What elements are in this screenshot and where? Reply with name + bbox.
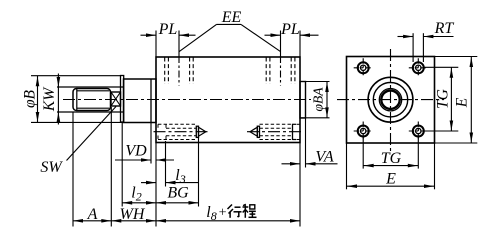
extension lines E right	[435, 57, 478, 144]
svg-text:EE: EE	[221, 9, 242, 26]
svg-text:φBA: φBA	[311, 87, 326, 112]
svg-text:E: E	[385, 171, 396, 188]
svg-text:TG: TG	[381, 150, 402, 167]
dimension RT	[398, 20, 455, 38]
extension line stud thread start (down)	[165, 141, 167, 187]
extension lines TG bottom	[363, 137, 418, 169]
svg-text:φB: φB	[22, 89, 39, 108]
rod bore circle	[379, 89, 401, 111]
svg-text:KW: KW	[41, 86, 58, 112]
dimension PL left	[141, 21, 196, 38]
main horizontal centerline	[63, 99, 311, 101]
extension line phiB bottom	[31, 121, 124, 123]
rod bore thread circle	[381, 91, 399, 109]
dimension A	[73, 206, 111, 223]
dimension TG bottom	[363, 150, 418, 167]
svg-text:RT: RT	[434, 20, 455, 37]
svg-text:TG: TG	[435, 89, 452, 109]
svg-text:+: +	[218, 205, 227, 220]
extension line left port center (top)	[178, 31, 180, 57]
dimension PL right	[265, 21, 319, 38]
left cushion screw (hidden)	[154, 124, 211, 139]
extension line phiBA bottom	[300, 117, 330, 119]
extension lines E bottom	[347, 144, 435, 190]
right port (hidden thread lines + centerline)	[266, 56, 295, 86]
right cushion screw (hidden)	[247, 124, 303, 140]
dimension E right	[454, 57, 474, 144]
dimension l2	[122, 185, 156, 205]
dimension BG	[156, 185, 199, 205]
extension line right port center (top)	[280, 31, 282, 57]
svg-text:VA: VA	[315, 149, 334, 166]
label EE with leaders	[179, 9, 280, 52]
dimension VA	[282, 149, 338, 166]
extension line thread left face (down)	[72, 113, 74, 227]
bolt hole top-right	[409, 58, 428, 77]
dimension l3	[141, 167, 199, 186]
dimension phiBA	[311, 82, 329, 118]
bolt hole top-left	[354, 58, 373, 77]
extension line wrench flats left (down)	[110, 107, 112, 227]
svg-text:PL: PL	[280, 21, 300, 38]
svg-text:E: E	[454, 97, 471, 108]
dimension KW	[41, 74, 60, 125]
extension line body right edge (down)	[299, 143, 301, 227]
front cap seam line	[150, 79, 152, 122]
extension line phiBA top	[300, 81, 330, 83]
extension line boss right face (down)	[305, 119, 307, 168]
svg-text:VD: VD	[125, 143, 147, 160]
extension lines RT	[413, 33, 423, 62]
extension line collar right (down)	[121, 123, 123, 207]
extension lines TG right	[424, 67, 458, 131]
dimension TG right	[435, 67, 454, 131]
svg-text:BG: BG	[167, 185, 189, 202]
cylinder barrel outline	[156, 57, 300, 143]
center boss circle 2	[373, 83, 407, 117]
rear boss on right face	[300, 82, 306, 119]
bolt hole bottom-right	[409, 122, 428, 141]
dimension l8+stroke (travel)	[156, 204, 300, 223]
extension line stud tip (down)	[198, 137, 200, 207]
dimension phiB	[22, 76, 40, 123]
label SW with leader	[40, 107, 116, 177]
piston rod outline	[57, 87, 124, 112]
wrench flats square (SW)	[111, 92, 121, 106]
end view horizontal centerline	[337, 99, 444, 101]
extension line body right edge (top)	[299, 31, 301, 57]
extension line phiB top	[31, 75, 121, 77]
end view vertical centerline	[390, 49, 392, 153]
bolt hole bottom-left	[354, 122, 373, 141]
dimension VD	[115, 143, 174, 162]
collar washer	[121, 76, 124, 123]
dimension WH	[111, 206, 156, 223]
front cap block	[124, 79, 157, 123]
end view flange square	[347, 57, 435, 144]
extension line body left edge (down)	[155, 143, 157, 227]
left port (hidden thread lines + centerline)	[165, 56, 194, 86]
svg-text:PL: PL	[158, 21, 178, 38]
extension line body left edge (top)	[155, 31, 157, 57]
dimension E bottom	[347, 171, 435, 189]
center boss outer circle	[368, 77, 413, 122]
rod thread (rounded rect)	[73, 89, 111, 111]
extension line cap seam (down)	[150, 123, 152, 164]
svg-text:SW: SW	[40, 159, 63, 176]
